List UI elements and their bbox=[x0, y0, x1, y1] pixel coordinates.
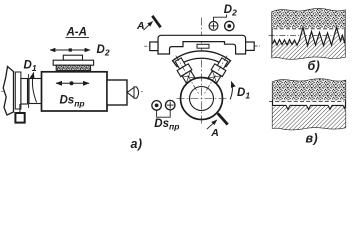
bracket under feed symbols bbox=[157, 110, 171, 117]
abrasive stone (left view, stippled) bbox=[56, 65, 90, 70]
hatched metal zone of b) bbox=[272, 28, 345, 60]
dog clamp link bbox=[19, 104, 21, 113]
centerline of workpiece axis bbox=[1, 91, 143, 93]
label D2 (middle view) bbox=[224, 4, 237, 18]
finished surface box outline bbox=[273, 79, 346, 130]
label Ds_pr (left view) bbox=[60, 95, 85, 109]
left stone radial centerline bbox=[176, 56, 199, 95]
left stone holder bbox=[177, 64, 192, 77]
leader bracket from D2 to rotation symbols bbox=[214, 15, 227, 22]
vertical centerline bbox=[201, 18, 203, 125]
label v) bbox=[306, 131, 319, 145]
abrasive stone hub (left view) bbox=[63, 55, 82, 60]
stipple zone (abrasive) of v) bbox=[273, 79, 346, 100]
stipple zone (abrasive) of b) bbox=[272, 9, 345, 28]
label Ds_pr (middle view) bbox=[154, 118, 179, 132]
right stone clamp bbox=[217, 58, 228, 69]
svg-text:в): в) bbox=[306, 131, 319, 145]
rotation symbol circle-plus (top) bbox=[209, 22, 218, 31]
label b) bbox=[308, 59, 321, 73]
svg-text:A: A bbox=[210, 127, 219, 139]
abrasive stone holder (left view) bbox=[53, 60, 93, 65]
label a) bbox=[131, 137, 143, 151]
top section mark A bbox=[136, 16, 161, 32]
right stone radial centerline bbox=[204, 56, 227, 95]
rough surface box outline bbox=[272, 9, 345, 59]
right journal of workpiece bbox=[107, 80, 127, 105]
roughness profile line b) bbox=[273, 28, 345, 46]
longitudinal feed arrow inside workpiece bbox=[56, 81, 89, 85]
hatched metal zone of v) bbox=[273, 105, 346, 129]
mean line b) bbox=[269, 34, 345, 36]
tailstock centre cone bbox=[127, 87, 134, 97]
label D1 (middle view) bbox=[237, 87, 250, 101]
holder bar (bridge) bbox=[158, 35, 246, 54]
driving dog bar 1 bbox=[15, 72, 21, 109]
dog clamp square bbox=[15, 113, 24, 123]
svg-text:б): б) bbox=[308, 59, 321, 73]
feed symbol circle-plus (bottom) bbox=[165, 100, 175, 110]
workpiece cylinder bbox=[42, 72, 108, 111]
centre clamp block bbox=[197, 44, 209, 48]
dashed line v) bbox=[269, 101, 344, 103]
svg-text:A-A: A-A bbox=[66, 27, 87, 39]
dashed fringe line b) bbox=[274, 28, 344, 30]
oscillation arrow D2 (left view) bbox=[50, 48, 90, 51]
right abrasive stone bbox=[208, 71, 221, 83]
feed symbol circle-dot (bottom) bbox=[152, 101, 162, 111]
tailstock centre cap bbox=[134, 87, 139, 98]
bottom section mark A bbox=[207, 113, 228, 139]
workpiece inner circle bbox=[190, 87, 214, 111]
bar left stub bbox=[144, 42, 158, 51]
label D2 (left view) bbox=[97, 44, 110, 58]
left abrasive stone bbox=[182, 71, 195, 83]
yoke arc band bbox=[173, 51, 231, 67]
driving faceplate (leaf shape) bbox=[3, 67, 13, 116]
driving dog bar 2 bbox=[21, 79, 28, 105]
svg-text:A: A bbox=[136, 20, 145, 32]
rotation symbol circle-dot (top) bbox=[225, 21, 234, 30]
left journal of workpiece bbox=[29, 79, 42, 104]
left journal edge line bbox=[28, 74, 30, 108]
rotation arrow D1 (middle view) bbox=[230, 82, 232, 100]
horizontal centerline bbox=[177, 98, 228, 100]
finished profile line v) bbox=[273, 105, 346, 109]
right stone holder bbox=[211, 64, 226, 77]
left stone clamp bbox=[175, 58, 186, 69]
bar right stub bbox=[246, 42, 260, 50]
section label A-A bbox=[66, 27, 90, 39]
svg-text:а): а) bbox=[131, 137, 143, 151]
rotation arrow D1 (left view) bbox=[32, 73, 36, 103]
label D1 (left view) bbox=[24, 60, 37, 74]
workpiece outer circle bbox=[181, 78, 223, 120]
